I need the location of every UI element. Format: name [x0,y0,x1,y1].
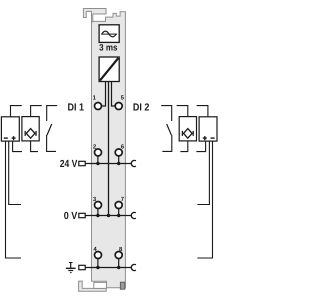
module top latch bar [83,9,106,22]
right sensor group [161,106,217,258]
pin 5 [115,103,122,110]
pin 7 [115,202,122,209]
junction pin4/ground [96,266,99,269]
junction pin6/24V [117,162,120,165]
junction pin8/ground [117,266,120,269]
S2 top wire [31,106,42,117]
0V rail [85,215,131,217]
stub pin2 [97,156,99,163]
S2 diamond [26,129,35,139]
pin 8 [115,252,122,259]
0V terminal marker [79,213,85,217]
S4 top wire [177,106,188,117]
S2 side bars [25,131,36,136]
pin 2 [95,149,102,156]
stub pin7 [118,209,120,216]
pin 4 [95,252,102,259]
junction pin2/24V [96,162,99,165]
filter sine symbol [101,33,117,35]
switch SW2 contact [161,106,172,121]
svg-text:DI 1: DI 1 [68,102,85,113]
switch SW2 blade [167,124,172,135]
S3 minus [211,137,215,139]
S3 plus wire [197,141,209,204]
sensor S3 box [199,117,217,141]
isolation box U2 [99,57,119,82]
stub pin3 [97,209,99,216]
ground arc [131,264,136,270]
svg-text:DI 2: DI 2 [133,102,150,113]
svg-text:24 V: 24 V [60,159,78,170]
svg-text:0 V: 0 V [64,211,78,222]
S1 minus [4,137,8,139]
wire center to 0V [108,82,110,216]
sensor S4 box [179,117,196,141]
switch SW1 contact [47,106,58,121]
din rail left flange [94,282,107,288]
24V rail [85,163,131,165]
24V terminal marker [79,161,85,165]
sensor S1 box [1,117,19,141]
stub pin4 [97,259,99,268]
24V arc [131,160,136,166]
S1 minus wire [6,141,22,258]
filter box U1 [99,25,119,43]
junction pin7/0V [117,214,120,217]
left sensor group [1,106,57,258]
switch SW1 blade [47,124,52,135]
stub pin6 [118,156,120,163]
module bottom foot [79,281,107,291]
wire to pin 5 [112,82,115,107]
S3 plus [203,136,207,140]
S1 plus [12,136,16,140]
S4 bottom wire [180,141,187,152]
din rail notch [120,282,124,289]
0V arc [131,212,136,218]
pin 6 [115,149,122,156]
sensor S2 box [22,117,39,141]
isolation diagonal [100,58,119,81]
S3 minus wire [197,141,212,258]
pin 1 [95,103,102,110]
S1 stub wire [13,141,22,152]
S3 top wire [197,106,208,117]
switch SW1 bottom wire [47,135,56,151]
S1 top wire [11,106,22,117]
S4 side bars [182,131,193,136]
svg-text:3 ms: 3 ms [99,43,117,53]
junction center 0V [107,214,110,217]
ground symbol [66,262,76,272]
wire to pin 1 [102,82,106,107]
S4 diamond [184,129,193,139]
ground rail [85,267,131,269]
stub pin8 [118,259,120,268]
pin 3 [95,202,102,209]
module body [92,12,126,288]
switch SW2 bottom wire [162,135,171,151]
S3 stub wire [196,141,205,152]
S1 plus wire [9,141,21,204]
ground terminal marker [79,265,85,269]
junction pin3/0V [96,214,99,217]
S2 bottom wire [31,141,38,152]
